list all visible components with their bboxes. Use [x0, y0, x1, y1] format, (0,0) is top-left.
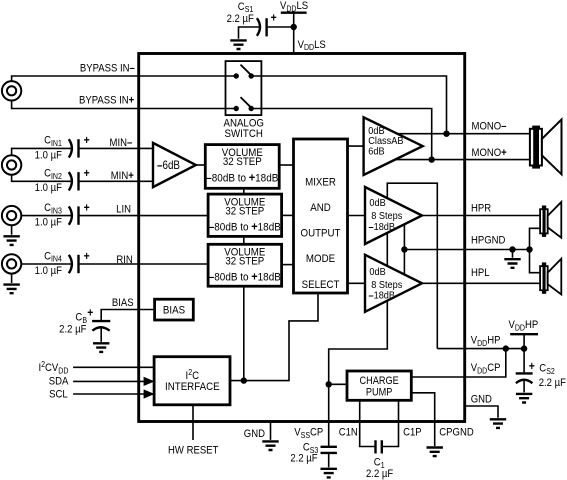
- wire -6dB out: [196, 164, 205, 166]
- switch S2: [234, 97, 254, 111]
- svg-text:PUMP: PUMP: [366, 387, 393, 399]
- wire MONO- output: [392, 133, 530, 135]
- wire CS1 left to ground: [239, 27, 261, 39]
- box volume 3: [208, 244, 282, 286]
- capacitor CB: [92, 321, 110, 331]
- chip outline: [139, 54, 465, 422]
- svg-text:C1N: C1N: [339, 427, 358, 439]
- svg-text:+: +: [529, 360, 535, 373]
- svg-text:VSSCP: VSSCP: [294, 427, 323, 440]
- node junction VDDHP CS2: [521, 345, 527, 351]
- svg-text:2.2 µF: 2.2 µF: [539, 378, 566, 390]
- svg-text:GND: GND: [244, 428, 265, 440]
- svg-text:BIAS: BIAS: [112, 298, 134, 310]
- ground CS1: [230, 40, 246, 49]
- svg-text:2.2 µF: 2.2 µF: [366, 469, 393, 480]
- connector CIN1 CIN2 jack: [2, 155, 21, 174]
- node junction bypass- MONO-: [443, 131, 449, 137]
- svg-text:HPL: HPL: [471, 268, 490, 280]
- svg-text:32 STEP: 32 STEP: [223, 157, 262, 169]
- wire mixer bottom to I2C net: [230, 293, 318, 381]
- svg-text:SWITCH: SWITCH: [225, 129, 263, 141]
- node junction volume3/I2C net: [241, 377, 247, 383]
- svg-text:INTERFACE: INTERFACE: [165, 382, 220, 394]
- box mixer: [294, 139, 348, 293]
- svg-text:SELECT: SELECT: [302, 279, 340, 291]
- wire volume1 to volume2: [243, 188, 245, 194]
- node junction VSSCP net: [326, 381, 332, 387]
- wire MIN+: [12, 175, 153, 182]
- svg-text:VDDHP: VDDHP: [509, 320, 539, 333]
- wire HPR bottom to HPL top: [386, 231, 388, 268]
- wire HPR output: [422, 215, 540, 217]
- wire CB to ground: [100, 328, 102, 342]
- ground LIN jack: [3, 225, 19, 245]
- svg-text:CPGND: CPGND: [439, 427, 473, 439]
- svg-text:–18dB: –18dB: [369, 221, 396, 233]
- svg-text:CHARGE: CHARGE: [359, 376, 399, 388]
- svg-text:VDDHP: VDDHP: [471, 335, 501, 348]
- capacitor CS1: [257, 18, 267, 36]
- wire volume3 to mixer: [282, 264, 294, 266]
- svg-text:VDDCP: VDDCP: [471, 362, 501, 375]
- wire VDDLS rail vertical: [293, 13, 295, 54]
- wire HPL bottom to VSSCP net: [329, 299, 388, 384]
- svg-text:CIN4: CIN4: [44, 251, 62, 264]
- svg-text:1.0 µF: 1.0 µF: [35, 150, 62, 162]
- svg-text:6dB: 6dB: [368, 146, 384, 158]
- svg-text:+: +: [271, 12, 277, 25]
- svg-text:0dB: 0dB: [369, 198, 385, 210]
- wire VSSCP net to charge pump: [329, 383, 347, 385]
- svg-text:LIN: LIN: [116, 204, 131, 216]
- wire volume2 to mixer: [282, 214, 294, 216]
- svg-text:I2C: I2C: [185, 368, 199, 382]
- svg-text:MIN+: MIN+: [111, 171, 134, 183]
- svg-text:MODE: MODE: [306, 254, 335, 266]
- svg-text:–6dB: –6dB: [157, 159, 180, 172]
- speaker mono: [530, 120, 562, 175]
- wire HPR bottom input to HPGND: [403, 223, 405, 277]
- connector RIN jack: [2, 254, 21, 273]
- wire MIN-: [12, 148, 153, 155]
- svg-text:–80dB to +18dB: –80dB to +18dB: [206, 172, 278, 184]
- wire HPR amp top to VDDHP: [387, 183, 437, 348]
- wire CS1 right to VDDLS: [267, 26, 294, 28]
- wire VDDHP: [437, 348, 524, 350]
- wire CS2 to ground: [523, 381, 525, 393]
- svg-text:BYPASS IN+: BYPASS IN+: [79, 95, 134, 107]
- box charge pump: [347, 371, 411, 400]
- amplifier HPR: [365, 187, 422, 244]
- svg-text:MIN–: MIN–: [110, 137, 133, 149]
- svg-text:+: +: [87, 307, 93, 320]
- ground CPGND: [427, 448, 443, 457]
- svg-text:+: +: [84, 202, 90, 215]
- wire HPGND: [404, 249, 529, 251]
- ground GND bottom: [262, 441, 278, 450]
- svg-text:1.0 µF: 1.0 µF: [35, 183, 62, 195]
- svg-text:OUTPUT: OUTPUT: [301, 228, 342, 240]
- svg-text:HPR: HPR: [471, 203, 491, 215]
- box volume 2: [208, 194, 282, 236]
- ground GND right: [490, 419, 506, 428]
- svg-text:GND: GND: [471, 394, 492, 406]
- svg-text:BIAS: BIAS: [163, 305, 185, 317]
- wire VSSCP pin down: [328, 384, 330, 447]
- svg-text:+: +: [84, 250, 90, 263]
- amplifier classAB mono: [364, 117, 423, 175]
- wire volume2 to volume3: [243, 236, 245, 244]
- wire mixer to HPR amp: [348, 215, 366, 217]
- svg-text:VDDLS: VDDLS: [298, 39, 326, 52]
- svg-text:RIN: RIN: [116, 254, 132, 266]
- capacitor CIN2: [69, 172, 79, 190]
- svg-text:CS1: CS1: [238, 1, 253, 14]
- svg-text:VDDLS: VDDLS: [280, 0, 308, 13]
- speaker HPL: [540, 259, 561, 295]
- capacitor CS3: [321, 447, 337, 453]
- wire RIN: [21, 263, 208, 265]
- ground CS2: [516, 394, 532, 403]
- svg-text:MONO+: MONO+: [472, 147, 507, 159]
- svg-text:CIN3: CIN3: [44, 202, 62, 215]
- svg-text:AND: AND: [310, 203, 331, 215]
- svg-text:CIN1: CIN1: [44, 135, 62, 148]
- wire speaker return HPR: [530, 228, 541, 272]
- svg-text:MIXER: MIXER: [305, 177, 336, 189]
- wire SDA with arrow: [73, 377, 155, 386]
- svg-text:MONO–: MONO–: [472, 121, 507, 133]
- connector LIN jack: [2, 206, 21, 225]
- capacitor CIN4: [69, 255, 79, 273]
- wire HW RESET: [192, 405, 194, 440]
- node junction HPGND amps: [401, 246, 407, 252]
- wire volume1 to mixer: [279, 164, 293, 166]
- svg-text:32 STEP: 32 STEP: [225, 206, 264, 218]
- svg-text:SCL: SCL: [49, 389, 68, 401]
- wire MONO+ output: [390, 159, 530, 161]
- box BIAS: [155, 299, 194, 320]
- svg-text:2.2 µF: 2.2 µF: [290, 453, 317, 465]
- power VDDLS top bar: [281, 11, 307, 13]
- power VDDHP top bar: [510, 334, 538, 348]
- wire GND right: [465, 406, 498, 418]
- wire C1N: [360, 400, 375, 446]
- svg-text:2.2 µF: 2.2 µF: [59, 324, 86, 336]
- svg-text:–80dB to +18dB: –80dB to +18dB: [209, 271, 281, 283]
- svg-text:1.0 µF: 1.0 µF: [35, 217, 62, 229]
- svg-text:BYPASS IN–: BYPASS IN–: [80, 63, 135, 75]
- svg-text:HPGND: HPGND: [471, 235, 505, 247]
- svg-text:–80dB to +18dB: –80dB to +18dB: [209, 221, 281, 233]
- svg-text:SDA: SDA: [49, 376, 69, 388]
- node junction VDDLS CS1: [291, 24, 297, 30]
- node junction VDDCP VDDHP: [503, 345, 509, 351]
- svg-text:+: +: [84, 135, 90, 148]
- speaker HPR: [540, 202, 561, 238]
- svg-text:0dB: 0dB: [369, 266, 385, 278]
- svg-text:1.0 µF: 1.0 µF: [35, 265, 62, 277]
- wire CS2 top: [523, 349, 525, 374]
- svg-text:+: +: [84, 168, 90, 181]
- ground HPGND: [504, 250, 520, 268]
- amplifier HPL: [365, 255, 422, 312]
- svg-text:CS2: CS2: [539, 363, 554, 376]
- svg-text:HW RESET: HW RESET: [168, 445, 218, 457]
- switch analog switch box: [226, 61, 262, 115]
- wire volume3 down to I2C net: [243, 286, 245, 380]
- switch S1: [234, 65, 254, 79]
- svg-text:2.2 µF: 2.2 µF: [227, 13, 254, 25]
- wire LIN: [21, 215, 208, 217]
- ground CS3: [321, 469, 337, 478]
- wire GND bottom pin: [270, 422, 272, 440]
- wire BIAS: [101, 310, 154, 322]
- ground RIN jack: [3, 274, 19, 294]
- svg-text:–18dB: –18dB: [369, 290, 396, 302]
- svg-text:I2CVDD: I2CVDD: [38, 360, 68, 376]
- capacitor CS2: [516, 373, 533, 383]
- box I2C interface: [154, 357, 230, 405]
- box volume 1: [205, 145, 279, 189]
- node junction HPGND speakers: [526, 246, 532, 252]
- wire mixer to HPL amp: [348, 282, 366, 284]
- capacitor C1: [376, 440, 382, 453]
- wire CS3 to ground: [328, 453, 330, 467]
- wire C1P: [383, 400, 399, 446]
- wire I2CVDD: [73, 366, 154, 368]
- amplifier -6dB: [153, 143, 196, 187]
- svg-text:C1P: C1P: [403, 427, 422, 439]
- wire HPL output: [422, 282, 540, 284]
- capacitor CIN3: [69, 206, 79, 224]
- wire VDDCP: [411, 349, 506, 377]
- wire BYPASS IN+: [12, 101, 432, 160]
- wire CPGND: [411, 393, 434, 446]
- svg-text:32 STEP: 32 STEP: [225, 256, 264, 268]
- node junction HPGND ground: [509, 246, 515, 252]
- ground CB: [93, 343, 109, 352]
- svg-text:CIN2: CIN2: [44, 168, 62, 181]
- connector bypass jack: [2, 81, 21, 100]
- node junction bypass+ MONO+: [429, 156, 435, 162]
- wire mixer to classAB: [348, 145, 364, 147]
- wire BYPASS IN-: [12, 76, 447, 134]
- wire SCL with arrow: [73, 389, 155, 398]
- capacitor CIN1: [69, 139, 79, 157]
